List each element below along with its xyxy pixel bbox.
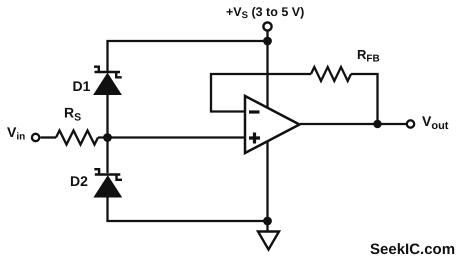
wire RS to non-inverting input: [98, 136, 245, 138]
op-amp non-inverting input plus sign: [249, 133, 260, 144]
node: junction dot at output: [373, 120, 381, 128]
wire op-amp output to Vout terminal: [300, 123, 406, 125]
wire D2 anode to bottom rail: [108, 196, 268, 221]
terminal +Vs: [263, 22, 271, 30]
wire D2 branch vertical: [106, 138, 108, 174]
wire feedback loop from inverting input up to RFB: [211, 74, 311, 112]
op-amp inverting input minus sign: [249, 110, 260, 113]
svg-text:SeekIC.com: SeekIC.com: [370, 241, 455, 258]
terminal Vout: [407, 120, 414, 127]
resistor RFB: [311, 67, 351, 81]
node: junction dot at ground rail: [263, 217, 272, 226]
terminal Vin: [32, 134, 39, 141]
wire D1 branch vertical: [106, 94, 108, 138]
wire ground stub: [266, 221, 268, 232]
wire RFB right to output node: [351, 74, 378, 124]
svg-text:+VS (3 to 5 V): +VS (3 to 5 V): [226, 5, 304, 21]
wire top rail from D1 to +Vs: [108, 41, 268, 72]
resistor RS: [56, 131, 98, 145]
svg-text:Vout: Vout: [422, 113, 449, 132]
wire Vin terminal to RS: [41, 136, 57, 138]
diode D1 (zener): [94, 67, 122, 95]
svg-text:D2: D2: [70, 173, 88, 189]
wire op-amp bottom pin to ground node: [266, 141, 268, 221]
node: junction dot at Vin/RS/D1/D2: [103, 133, 112, 142]
ground: [258, 232, 279, 250]
op-amp U1 triangle: [245, 96, 300, 153]
svg-text:Vin: Vin: [7, 124, 25, 143]
diode D2 (zener): [94, 169, 122, 197]
svg-text:D1: D1: [73, 78, 91, 94]
node: junction dot at +Vs: [263, 37, 272, 46]
wire +Vs vertical to op-amp top pin: [266, 32, 268, 109]
svg-text:RFB: RFB: [357, 47, 380, 65]
svg-text:RS: RS: [64, 105, 81, 124]
